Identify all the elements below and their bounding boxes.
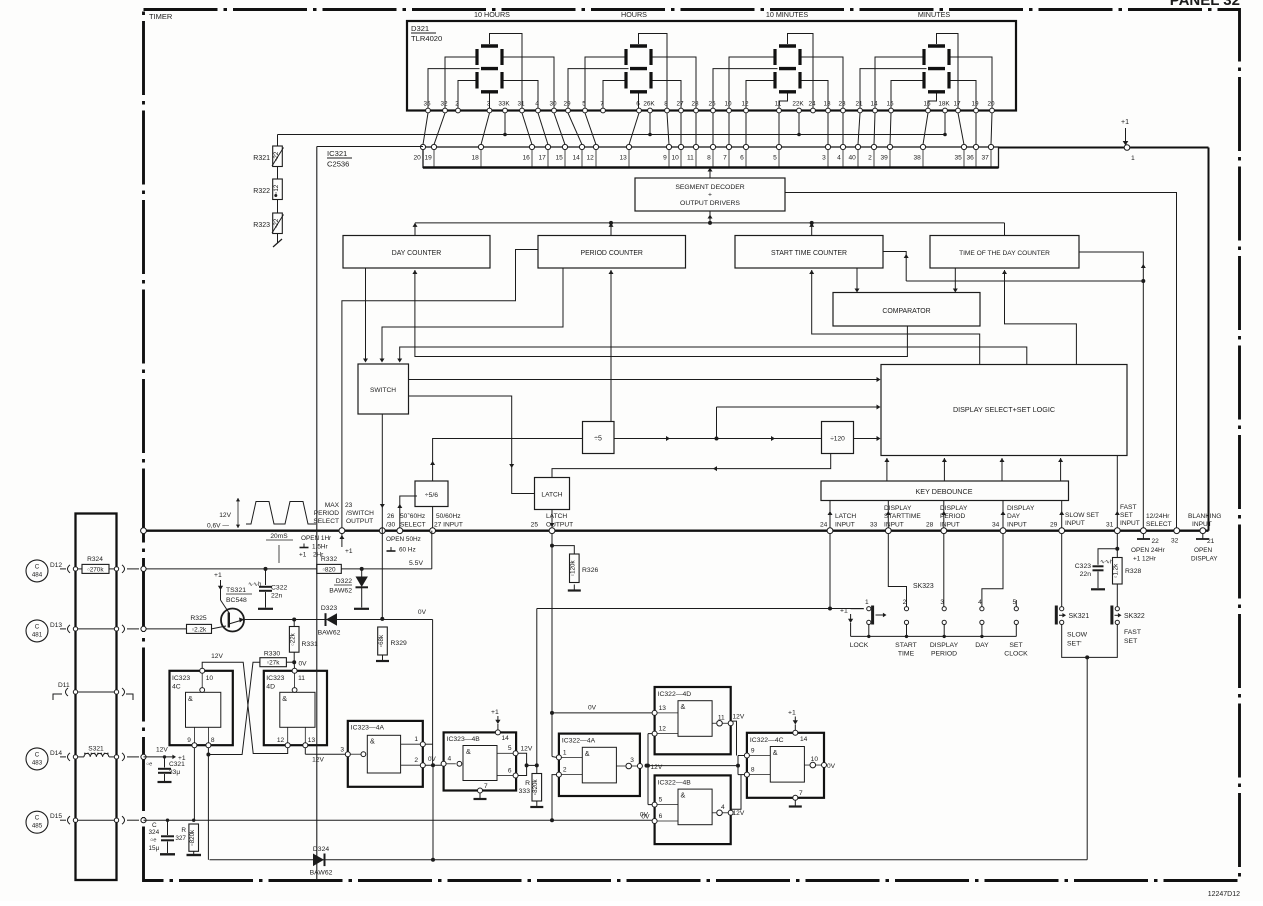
svg-text:INPUT: INPUT <box>1192 521 1212 528</box>
wire pin13 to IC323-4A pin3 <box>304 748 306 755</box>
svg-text:+1: +1 <box>491 709 499 716</box>
resistor R329 <box>378 627 388 655</box>
svg-text:DAY: DAY <box>1007 513 1021 520</box>
svg-text:39: 39 <box>880 155 888 162</box>
svg-text:2: 2 <box>563 767 567 774</box>
wire R323 end stub <box>277 234 279 244</box>
svg-text:29: 29 <box>1050 522 1058 529</box>
svg-text:D324: D324 <box>313 846 329 853</box>
svg-text:R326: R326 <box>582 567 598 574</box>
svg-text:&: & <box>585 749 590 758</box>
svg-text:IC323: IC323 <box>172 675 190 682</box>
wire IC322-4A out node <box>645 764 649 768</box>
wires digit hours segments <box>568 34 696 111</box>
block SEGMENT DECODER OUTPUT DRIVERS <box>635 178 785 211</box>
svg-text:SET: SET <box>1009 642 1022 649</box>
svg-text:IC323—4A: IC323—4A <box>351 724 385 731</box>
wire display select left input <box>717 406 879 408</box>
svg-text:INPUT: INPUT <box>835 522 855 529</box>
svg-text:R325: R325 <box>190 615 206 622</box>
NAND gate IC322-4B <box>655 775 731 844</box>
wire pin34 to contact4 <box>982 534 1003 607</box>
connector pad C483 D14 <box>26 748 48 770</box>
svg-text:10 HOURS: 10 HOURS <box>474 10 510 19</box>
svg-text:IC323—4B: IC323—4B <box>447 736 481 743</box>
wire D13 line <box>144 628 187 630</box>
resistor R331 <box>289 627 299 653</box>
svg-text:28: 28 <box>691 101 699 108</box>
svg-text:/SWITCH: /SWITCH <box>346 510 374 517</box>
svg-text:9: 9 <box>663 155 667 162</box>
svg-text:BAW62: BAW62 <box>318 630 341 637</box>
svg-text:485: 485 <box>32 823 43 830</box>
svg-text:TIME: TIME <box>898 651 915 658</box>
svg-text:20: 20 <box>987 101 995 108</box>
svg-text:PANEL 32: PANEL 32 <box>1170 0 1240 9</box>
wire period counter from divider <box>610 270 612 422</box>
svg-text:+1: +1 <box>214 572 222 579</box>
wire D15 0V line <box>144 819 653 821</box>
svg-text:333: 333 <box>519 788 531 795</box>
IC IC321 C2536 box <box>423 147 999 168</box>
svg-text:0V: 0V <box>640 812 649 819</box>
svg-text:11: 11 <box>775 101 782 108</box>
svg-text:483: 483 <box>32 759 43 766</box>
wire 12V cross strand A <box>202 662 288 753</box>
resistor R333 <box>536 765 538 773</box>
svg-text:18: 18 <box>471 155 479 162</box>
resistor R332 <box>317 564 342 573</box>
svg-text:INPUT: INPUT <box>1007 522 1027 529</box>
svg-text:▫820: ▫820 <box>323 566 336 573</box>
svg-text:DISPLAY: DISPLAY <box>1191 556 1218 563</box>
svg-text:INPUT: INPUT <box>940 522 960 529</box>
svg-text:60 Hz: 60 Hz <box>399 547 416 554</box>
svg-text:R331: R331 <box>302 641 318 648</box>
svg-text:12: 12 <box>277 737 285 744</box>
svg-text:0V: 0V <box>418 609 427 616</box>
capacitor C324 <box>166 819 169 822</box>
svg-text:26K: 26K <box>643 101 655 108</box>
block START TIME COUNTER <box>735 236 883 269</box>
IC321 pin row <box>413 144 993 166</box>
svg-text:SK323: SK323 <box>913 583 934 590</box>
wire pins 5-6 tie <box>518 753 527 775</box>
svg-text:22n: 22n <box>271 593 283 600</box>
resistor R322 <box>273 179 283 200</box>
svg-text:▫68k: ▫68k <box>378 634 385 647</box>
svg-text:&: & <box>188 694 193 703</box>
svg-text:R: R <box>181 827 186 834</box>
ground pin 21 open <box>1202 534 1204 540</box>
svg-text:FAST: FAST <box>1124 629 1141 636</box>
svg-text:SELECT: SELECT <box>400 522 426 529</box>
svg-text:PERIOD: PERIOD <box>931 651 957 658</box>
svg-text:0V: 0V <box>588 705 597 712</box>
svg-text:50/60Hz: 50/60Hz <box>436 513 461 520</box>
K cathode stubs to common line <box>503 113 947 136</box>
svg-text:SWITCH: SWITCH <box>370 387 396 394</box>
svg-text:BAW62: BAW62 <box>310 870 333 877</box>
svg-text:31: 31 <box>1106 522 1114 529</box>
svg-text:8: 8 <box>211 737 215 744</box>
bus pin circles <box>141 528 1206 534</box>
wire switch-output pin drop <box>381 414 383 619</box>
wire period counter up <box>610 223 612 236</box>
svg-text:31: 31 <box>517 101 525 108</box>
svg-text:BLANKING: BLANKING <box>1188 513 1221 520</box>
svg-text:R332: R332 <box>321 556 337 563</box>
svg-text:10: 10 <box>724 101 732 108</box>
wire IC322 cross-couple right <box>737 756 739 775</box>
connector pad C484 D12 <box>26 560 48 582</box>
NAND gate IC323-4B box <box>444 732 516 790</box>
wire pin24 drop <box>829 534 831 609</box>
svg-text:15μ: 15μ <box>149 845 160 852</box>
svg-text:12V: 12V <box>211 653 223 660</box>
wire left bus vertical <box>316 147 318 881</box>
svg-text:OUTPUT DRIVERS: OUTPUT DRIVERS <box>680 200 740 207</box>
svg-text:▫1.2k: ▫1.2k <box>1113 563 1120 578</box>
svg-text:15: 15 <box>555 155 563 162</box>
switch SK323 contacts <box>865 599 1018 625</box>
svg-text:C: C <box>35 815 40 822</box>
wire decoder right output <box>785 193 1177 531</box>
svg-text:2: 2 <box>868 155 872 162</box>
svg-text:START: START <box>895 642 917 649</box>
svg-text:11: 11 <box>718 714 725 721</box>
svg-text:FAST: FAST <box>1120 504 1137 511</box>
svg-text:DISPLAY SELECT+SET LOGIC: DISPLAY SELECT+SET LOGIC <box>953 405 1055 414</box>
svg-text:19: 19 <box>424 155 432 162</box>
wire switch to display select (h3) <box>400 347 1027 365</box>
wire switch output to latch <box>409 396 535 494</box>
wire 0V to pin13 <box>552 712 652 714</box>
svg-text:C: C <box>152 822 157 829</box>
svg-text:∿∿h: ∿∿h <box>248 582 261 588</box>
wire switch output to display select <box>409 379 879 381</box>
wire emitter line 0V <box>244 619 433 621</box>
wire pin31 down <box>1116 534 1118 558</box>
svg-text:324: 324 <box>149 829 160 836</box>
wire time-of-day to comparator <box>954 268 956 290</box>
svg-text:7: 7 <box>600 101 604 108</box>
svg-text:7: 7 <box>799 790 803 797</box>
svg-text:▫22k: ▫22k <box>290 632 297 645</box>
node +1 IC323-4B pin14 <box>495 730 500 735</box>
wire right vertical to bus end <box>1208 148 1210 531</box>
svg-text:D323: D323 <box>321 605 337 612</box>
wire <box>277 200 279 214</box>
svg-text:10: 10 <box>811 756 819 763</box>
svg-text:▫270k: ▫270k <box>87 566 104 573</box>
svg-text:0V: 0V <box>827 763 836 770</box>
svg-text:10: 10 <box>671 155 679 162</box>
svg-text:6: 6 <box>508 768 512 775</box>
svg-text:LATCH: LATCH <box>835 513 856 520</box>
svg-text:D321: D321 <box>411 24 429 33</box>
wire node down to D324 line <box>432 765 434 860</box>
ground R333 <box>536 801 538 807</box>
wire comparator to day counter (h6) <box>415 270 908 357</box>
wire pin27 to divide5/6 to divide5 <box>433 439 583 482</box>
svg-text:30: 30 <box>549 101 557 108</box>
svg-text:OPEN: OPEN <box>1194 547 1212 554</box>
svg-text:27 INPUT: 27 INPUT <box>434 522 463 529</box>
wire day counter to switch <box>365 268 367 360</box>
svg-text:27: 27 <box>676 101 684 108</box>
svg-text:LATCH: LATCH <box>546 513 567 520</box>
svg-text:23: 23 <box>838 101 846 108</box>
svg-text:IC322—4D: IC322—4D <box>658 691 692 698</box>
diode D324 <box>313 854 324 867</box>
svg-text:24: 24 <box>820 522 828 529</box>
svg-text:D13: D13 <box>50 622 62 629</box>
block DAY COUNTER <box>343 236 490 269</box>
svg-text:÷120: ÷120 <box>830 436 845 443</box>
svg-text:/30: /30 <box>386 522 395 529</box>
svg-text:D12: D12 <box>50 562 62 569</box>
svg-text:50‶60Hz: 50‶60Hz <box>400 512 425 520</box>
NAND gate IC323-4A box <box>348 721 423 787</box>
ground R329 <box>382 655 384 661</box>
svg-text:1.5Hr: 1.5Hr <box>312 544 328 551</box>
svg-text:C2536: C2536 <box>327 160 349 169</box>
svg-text:22: 22 <box>1152 538 1160 545</box>
wire divide5/6 select to pin26/30 <box>400 496 417 528</box>
svg-text:12247D12: 12247D12 <box>1208 891 1240 898</box>
svg-text:33K: 33K <box>498 101 510 108</box>
svg-text:12: 12 <box>586 155 594 162</box>
svg-text:10 MINUTES: 10 MINUTES <box>766 10 809 19</box>
svg-text:SET': SET' <box>1067 641 1082 648</box>
svg-text:S321: S321 <box>88 746 104 753</box>
svg-text:OPEN 50Hz: OPEN 50Hz <box>386 536 421 543</box>
svg-text:12V: 12V <box>156 747 168 754</box>
svg-text:4: 4 <box>721 804 725 811</box>
wire R330 to 0V node <box>286 661 294 663</box>
svg-text:R: R <box>525 780 530 787</box>
svg-text:3: 3 <box>822 155 826 162</box>
svg-text:BAW62: BAW62 <box>329 588 352 595</box>
wires digit 10 minutes segments <box>713 34 843 111</box>
wires key debounce to display select <box>884 458 1063 481</box>
svg-text:R322: R322 <box>253 188 270 195</box>
resistor R330 <box>260 658 287 667</box>
wire pin8 stub <box>207 748 209 755</box>
svg-text:D322: D322 <box>336 578 352 585</box>
svg-text:4: 4 <box>535 101 539 108</box>
svg-text:DISPLAY: DISPLAY <box>940 505 968 512</box>
NAND gate IC323-4C <box>170 671 233 745</box>
svg-text:13: 13 <box>659 705 667 712</box>
svg-text:÷5: ÷5 <box>594 436 602 443</box>
IC323-4A inner gate <box>367 735 400 773</box>
svg-text:▫27k: ▫27k <box>267 660 280 667</box>
svg-text:INPUT: INPUT <box>884 522 904 529</box>
svg-text:9: 9 <box>187 737 191 744</box>
svg-text:11: 11 <box>298 675 305 682</box>
block divide-by-120 <box>822 422 854 454</box>
svg-text:÷5/6: ÷5/6 <box>425 492 438 499</box>
svg-text:0,6V —: 0,6V — <box>207 523 229 530</box>
resistor R323 <box>273 213 283 234</box>
capacitor C321 <box>164 757 166 768</box>
svg-text:∿∿h: ∿∿h <box>1100 560 1113 566</box>
svg-text:COMPARATOR: COMPARATOR <box>882 308 930 315</box>
svg-text:R321: R321 <box>253 155 270 162</box>
svg-text:OPEN 24Hr: OPEN 24Hr <box>1131 547 1166 554</box>
switch SK323 pole <box>871 606 874 625</box>
svg-text:▫820k: ▫820k <box>532 779 539 796</box>
svg-text:16: 16 <box>923 101 931 108</box>
svg-text:34: 34 <box>992 522 1000 529</box>
svg-text:3: 3 <box>340 747 344 754</box>
svg-text:12V: 12V <box>521 746 533 753</box>
svg-text:36: 36 <box>966 155 974 162</box>
svg-text:23: 23 <box>345 502 353 509</box>
svg-text:○e: ○e <box>150 838 157 844</box>
svg-text:13: 13 <box>308 737 316 744</box>
resistor R328 <box>1113 558 1123 585</box>
svg-text:3: 3 <box>630 757 634 764</box>
svg-text:5: 5 <box>508 745 512 752</box>
wire divide120 to display select <box>854 438 879 440</box>
svg-text:HOURS: HOURS <box>621 10 647 19</box>
capacitor C323 <box>1098 549 1117 565</box>
wire pin1 to 0V vertical <box>425 743 432 745</box>
7-segment digit 10 minutes <box>775 46 800 92</box>
wire pin11 to 4C pin9 <box>731 721 736 755</box>
svg-text:MAX: MAX <box>325 502 340 509</box>
svg-text:DISPLAY: DISPLAY <box>1007 505 1035 512</box>
svg-text:+: + <box>708 192 712 199</box>
wire IC321 pin1 output <box>999 147 1209 149</box>
svg-text:MINUTES: MINUTES <box>918 10 951 19</box>
wire across connector D13 <box>78 628 114 630</box>
svg-text:21: 21 <box>855 101 863 108</box>
svg-text:DAY COUNTER: DAY COUNTER <box>392 250 442 257</box>
wire R331 bottom to node <box>293 652 295 662</box>
svg-text:R330: R330 <box>264 651 280 658</box>
svg-text:12V: 12V <box>733 810 745 817</box>
svg-text:R323: R323 <box>253 222 270 229</box>
wire cross strand B <box>208 662 260 754</box>
svg-text:C: C <box>35 751 40 758</box>
svg-text:&: & <box>773 748 778 757</box>
svg-text:12V: 12V <box>219 512 231 519</box>
svg-text:R328: R328 <box>1125 568 1141 575</box>
wire D324 line <box>210 859 1088 861</box>
transistor TS321 BC548 <box>220 588 222 600</box>
edge connector box <box>76 514 117 881</box>
svg-text:TS321: TS321 <box>226 587 246 594</box>
wire divide120 to latch <box>552 454 831 478</box>
svg-text:▫2.2k: ▫2.2k <box>192 626 207 633</box>
svg-text:8: 8 <box>707 155 711 162</box>
svg-text:13: 13 <box>823 101 831 108</box>
svg-text:1: 1 <box>865 599 869 606</box>
svg-text:PERIOD COUNTER: PERIOD COUNTER <box>580 250 642 257</box>
svg-text:OUTPUT: OUTPUT <box>546 522 573 529</box>
switch SK321 <box>1060 607 1064 611</box>
svg-text:START TIME COUNTER: START TIME COUNTER <box>771 250 847 257</box>
wire pin29 to SK321 <box>1061 534 1063 607</box>
resistor R321 <box>273 146 283 167</box>
NAND gate IC322-4A <box>559 734 640 796</box>
wire pin28 to contact3 <box>943 534 945 607</box>
svg-text:327: 327 <box>175 835 186 842</box>
svg-text:5: 5 <box>773 155 777 162</box>
svg-text:33: 33 <box>870 522 878 529</box>
wire decoder to IC321 <box>709 168 711 179</box>
svg-text:15: 15 <box>886 101 894 108</box>
block DISPLAY SELECT+SET LOGIC <box>881 365 1127 456</box>
block divide-by-5 <box>583 422 615 454</box>
block TIME OF THE DAY COUNTER <box>930 236 1079 269</box>
block PERIOD COUNTER <box>538 236 686 269</box>
wire IC321 pin20 to left bus <box>317 146 423 148</box>
svg-text:CLOCK: CLOCK <box>1004 651 1028 658</box>
svg-text:1: 1 <box>563 749 567 756</box>
svg-text:+1: +1 <box>1121 119 1129 126</box>
wire day counter up <box>414 223 416 236</box>
wire pin2 to pin4 node <box>425 764 441 766</box>
svg-text:4: 4 <box>448 756 452 763</box>
svg-text:INPUT: INPUT <box>1120 520 1140 527</box>
svg-text:14: 14 <box>870 101 878 108</box>
svg-text:INPUT: INPUT <box>1065 520 1085 527</box>
wire 0V corner down <box>432 620 434 766</box>
IC323-4B inner gate <box>463 746 497 781</box>
svg-text:▫820k: ▫820k <box>189 829 196 846</box>
svg-text:+1: +1 <box>840 608 848 615</box>
wire lock line <box>537 608 863 610</box>
svg-text:R329: R329 <box>391 640 407 647</box>
svg-text:IC322—4A: IC322—4A <box>562 738 596 745</box>
svg-text:12: 12 <box>741 101 749 108</box>
IC323-4B pin7 ground <box>478 788 483 793</box>
svg-text:R324: R324 <box>87 556 103 563</box>
svg-text:C323: C323 <box>1075 563 1091 570</box>
svg-text:17: 17 <box>538 155 546 162</box>
block SWITCH <box>358 364 409 414</box>
svg-text:7: 7 <box>484 783 488 790</box>
resistor R327 <box>192 819 195 822</box>
svg-text:DAY: DAY <box>975 642 989 649</box>
svg-text:OUTPUT: OUTPUT <box>346 518 373 525</box>
wire latch to pin25 <box>551 510 553 529</box>
IC322-4C pin7 ground <box>793 795 798 800</box>
svg-text:C: C <box>35 563 40 570</box>
wire time-of-day right to pin22 <box>1079 252 1143 531</box>
svg-text:20: 20 <box>413 155 421 162</box>
svg-text:16: 16 <box>522 155 530 162</box>
wire pin33 to contact2 <box>888 534 906 607</box>
block LATCH <box>535 478 570 510</box>
ground pin 22 open <box>1142 534 1144 540</box>
wire to IC322-4A pin1 <box>552 756 556 759</box>
svg-text:&: & <box>466 747 471 756</box>
wire pin31 to display select <box>1116 456 1118 529</box>
resistor R326 <box>552 546 574 554</box>
svg-text:12V: 12V <box>312 757 324 764</box>
svg-text:4D: 4D <box>266 683 275 690</box>
wire contact5 stub <box>1015 600 1017 607</box>
svg-text:7: 7 <box>723 155 727 162</box>
svg-text:+1 12Hr: +1 12Hr <box>1133 556 1157 563</box>
svg-text:19: 19 <box>971 101 979 108</box>
